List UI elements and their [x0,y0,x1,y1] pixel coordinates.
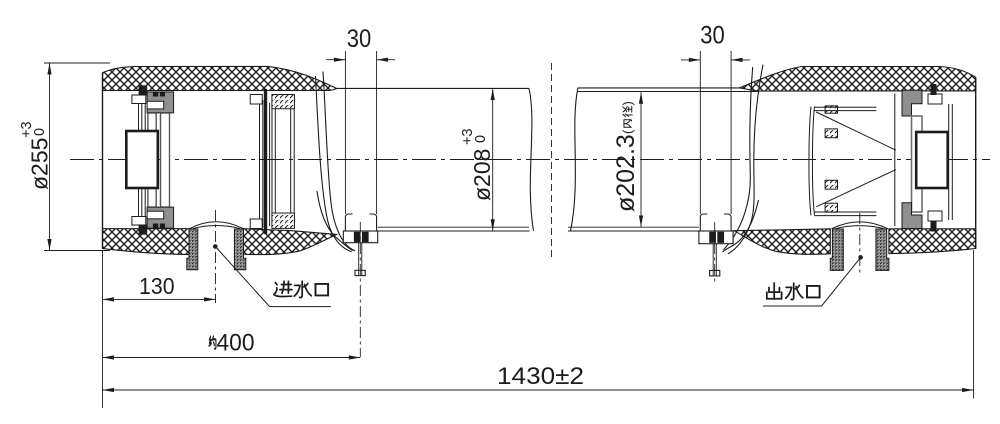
middle tube bottom outer line [344,230,530,232]
text phi255 +3/0 [19,121,53,190]
ring1 bottom bolt stud [139,225,148,235]
ring1 left channel [148,113,156,207]
ring2 bottom spacer block (hatched) [272,213,295,228]
ring1 top bolt stud [139,85,148,95]
ring2 silhouette lines [272,109,294,213]
label jinshuikou [274,281,292,296]
bottom shell band left of inlet port (hatched) [103,229,191,255]
top shell band (hatched) [103,66,338,90]
dim 1430 line [103,389,974,391]
middle tube top line [337,87,529,89]
arrows phi202.3 [639,92,643,104]
inlet port inner arc [193,226,241,229]
dim 400 line [103,357,361,359]
dim phi202.3 line [640,92,642,227]
svg-text:400: 400 [217,330,255,357]
cone bell mouth curves [809,107,815,216]
svg-text:1430±2: 1430±2 [497,363,584,390]
right clamp bolt shank [713,244,716,271]
ring2 top bolt head [250,95,262,105]
svg-text:0: 0 [473,135,489,143]
clamp left ear [345,214,352,231]
sleeve fold curve [317,191,353,251]
dim 30 right line [681,59,750,61]
svg-text:ø202.3: ø202.3 [612,134,640,212]
inlet port centerline [215,210,217,303]
svg-text:ø255: ø255 [27,138,53,190]
svg-text:130: 130 [139,273,175,299]
right clamp extension line left [699,51,701,214]
arrows 400 [103,355,115,359]
ring1 retainer rectangle [126,131,158,188]
right tube top inner line [578,91,758,93]
seal top bolt head [928,94,942,104]
bottom shell band right of inlet port (hatched wedge) [244,229,337,255]
right tube top outer line [578,87,739,89]
middle tube right break curve [529,88,534,230]
seal channel [912,116,923,212]
svg-text:30: 30 [347,25,372,53]
ring1 disc plates [139,104,146,226]
seal retainer rectangle [916,132,948,188]
top shell band right (hatched) [739,67,975,92]
right clamp housing [699,231,733,244]
cone spacer blocks (hatched) [825,106,837,113]
dim 130 line [103,298,216,300]
svg-text:0: 0 [32,128,48,136]
right tube left break curve [571,88,579,231]
bottom shell band left of outlet port (hatched wedge) [735,229,831,255]
clamp bolt washer [355,270,365,275]
svg-text:(: ( [620,129,635,134]
right clamp bolt washer [710,270,720,276]
right sleeve fold curve [723,200,759,252]
ring1 bottom seal notches [153,224,158,229]
ring1 bottom bolt head [132,217,146,226]
ring1 top seal slot [147,101,164,109]
right tube bottom outer line [568,230,735,232]
outlet port left wall (hatched) [830,229,843,270]
leader outlet [858,255,863,260]
right bottom extension line [973,250,975,399]
seal top block [902,90,922,116]
right tube bottom inner line [568,226,699,228]
text phi208 +3/0 [460,128,495,201]
text phi202.3 (neijing) [612,101,640,212]
seal bottom block [902,203,922,229]
ring1 top seal block [147,92,174,113]
svg-text:): ) [620,101,635,105]
clamp centerline [359,222,361,357]
arrows phi208 [491,89,495,101]
ring2 disc white channel [260,100,263,228]
left end cap [102,73,104,249]
right end cap [975,77,977,248]
inlet port left wall (hatched) [187,229,198,270]
right clamp right ear [724,214,731,231]
arrows 1430 [103,388,115,392]
seal bottom bolt head [928,211,942,221]
text 400 with yue [209,336,216,348]
ring2 top spacer block (hatched) [272,95,295,109]
dim phi255 extension lines [44,63,110,251]
cone slant bottom [816,170,896,207]
svg-text:30: 30 [700,22,725,50]
cone end plate [894,94,896,227]
cone bottom skirt lines [815,212,877,216]
leader inlet [213,244,218,249]
svg-text:ø208: ø208 [469,149,495,201]
cone slant top [816,112,896,150]
right clamp extension line right [730,51,732,214]
left bottom extension line [102,251,104,408]
right clamp left ear [700,214,707,231]
outlet port centerline [859,213,861,276]
clamp bolt shank [359,243,362,271]
sleeve taper second curve [323,72,355,251]
outlet port right wall (hatched) [876,229,889,270]
main horizontal centerline [70,159,990,161]
dim 30 left line [326,59,395,61]
clamp nut dark blocks [354,232,360,241]
vertical break dashed line [551,63,553,257]
ring1 bottom seal block [147,207,174,228]
seal disc plates [949,104,953,220]
dim phi255 line [49,63,51,251]
right sleeve taper second curve [724,67,753,250]
ring2 bottom bolt head [250,219,262,229]
cone top skirt lines [815,107,877,110]
arrows 130 [103,297,115,301]
ring1 top bolt head [132,95,146,104]
right clamp centerline [714,222,716,283]
ring2 disc right line [269,103,271,226]
outlet port outer arc [832,222,888,229]
seal top bolt stud [931,84,937,95]
right clamp nut dark blocks [710,232,716,242]
ring1 top seal notches [153,92,158,97]
ring1 bottom seal slot [147,211,164,219]
dim phi208 line [492,89,494,231]
outlet port inner arc [835,226,885,229]
arrows phi255 [47,63,51,75]
clamp housing [343,231,377,243]
clamp extension line left [344,51,346,214]
inlet port outer arc [190,222,244,229]
clamp right ear [370,214,377,231]
ring2 disc dark bar [264,89,267,234]
arrows 30 right [689,58,701,62]
ring1 right channel [161,113,170,207]
bottom shell band right of outlet port (hatched) [889,229,976,254]
label chushuikou [767,283,782,299]
sleeve taper long curve [316,76,352,252]
clamp extension line right [376,51,378,214]
inlet port right wall (hatched) [234,229,245,270]
middle tube bottom inner line [378,226,529,228]
arrows 30 left [334,58,346,62]
right sleeve taper long curve [728,65,763,254]
seal bottom bolt stud [931,221,937,232]
